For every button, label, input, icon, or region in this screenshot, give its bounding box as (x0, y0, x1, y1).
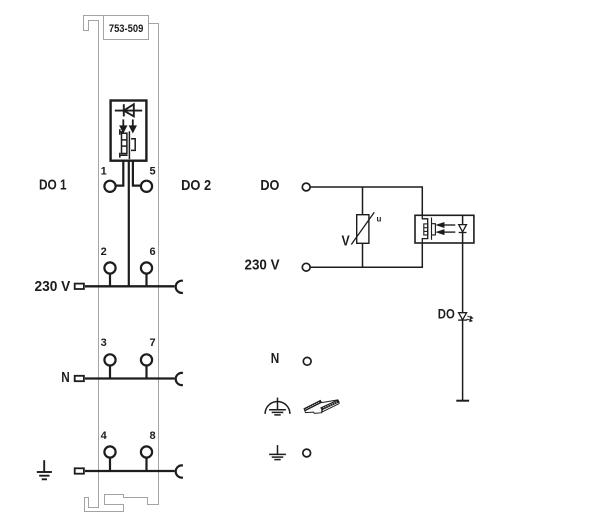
switch gate bar (431, 218, 433, 240)
svg-text:4: 4 (101, 430, 108, 442)
hook N bus (to next module) (176, 373, 183, 385)
varistor branch wire top (362, 187, 364, 215)
connector PE (rect) (75, 468, 84, 473)
svg-text:u: u (377, 215, 382, 224)
svg-text:V: V (342, 233, 350, 249)
LED emission arrows (467, 316, 473, 321)
svg-text:DO 1: DO 1 (39, 177, 67, 194)
wire 230V bus vertical (pin middle) (128, 161, 130, 286)
svg-text:7: 7 (150, 337, 156, 349)
node 230V terminal circle (302, 263, 310, 271)
pin 1 lead (116, 161, 123, 185)
svg-text:N: N (271, 350, 280, 367)
terminal circle 5 (141, 181, 152, 192)
svg-text:3: 3 (101, 337, 107, 349)
clean earth symbol (with arc) (265, 398, 290, 415)
svg-text:8: 8 (150, 430, 156, 442)
svg-text:5: 5 (150, 165, 156, 177)
DIN rail hatching (305, 401, 337, 411)
diode D1 (AC line) (115, 104, 142, 116)
node earth terminal circle (303, 449, 311, 457)
stem terminal 7 (145, 366, 147, 378)
terminal circle 8 (141, 446, 152, 457)
wire 230V bus horizontal (85, 285, 175, 287)
stem terminal 6 (145, 274, 147, 286)
svg-text:1: 1 (101, 165, 107, 177)
DIN rail 3D icon (304, 400, 339, 414)
svg-text:230 V: 230 V (35, 278, 71, 295)
svg-text:DO: DO (438, 307, 455, 322)
varistor diagonal (351, 212, 374, 244)
svg-text:753-509: 753-509 (109, 23, 144, 35)
optocoupler box U2 (415, 215, 474, 243)
hook PE bus (to next module) (176, 465, 183, 477)
terminal circle 2 (104, 262, 115, 273)
terminal circle 1 (104, 181, 115, 192)
symbol box U1 (output stage) (111, 101, 147, 161)
ground symbol (module PE) (37, 460, 52, 479)
stem terminal 3 (109, 366, 111, 378)
varistor branch wire bottom (362, 243, 364, 267)
plain earth symbol (bottom) (269, 445, 286, 460)
terminal circle 7 (141, 354, 152, 365)
svg-text:230 V: 230 V (245, 256, 280, 273)
module body outline 753-509 (84, 16, 159, 512)
LED D2 in box (459, 225, 467, 233)
svg-text:DO: DO (260, 177, 279, 194)
wire N bus horizontal (85, 377, 175, 379)
pin 5 lead (133, 161, 140, 185)
optocoupler light arrows (down) (121, 119, 136, 131)
svg-text:2: 2 (101, 246, 107, 258)
wire 230V to switch box (310, 243, 422, 267)
LED wire through box (462, 215, 464, 400)
svg-text:N: N (61, 369, 70, 386)
terminal circle 3 (104, 354, 115, 365)
svg-text:6: 6 (150, 246, 156, 258)
label box 753-509 (104, 16, 149, 40)
terminal circle 6 (141, 262, 152, 273)
stem terminal 2 (109, 274, 111, 286)
wire PE bus horizontal (85, 470, 175, 472)
connector N (rect) (75, 376, 84, 381)
solid-state switch Q2 (ladder) (424, 224, 428, 235)
stem terminal 8 (145, 458, 147, 471)
terminal circle 4 (104, 446, 115, 457)
DIN rail end caps (319, 400, 339, 410)
switch through-wire jog (422, 215, 427, 243)
svg-text:DO 2: DO 2 (181, 177, 211, 194)
hook 230V bus (to next module) (176, 281, 183, 293)
light arrow upper (to switch) (437, 223, 455, 234)
node DO terminal circle (302, 183, 310, 191)
wire end bar (456, 400, 469, 402)
varistor V1 body (357, 215, 369, 244)
stem terminal 4 (109, 458, 111, 471)
switch bracket electrode (432, 224, 436, 235)
solid-state switch Q1 (vertical) (120, 129, 135, 159)
wire DO to switch box (310, 187, 422, 215)
node N terminal circle (303, 357, 311, 365)
connector 230V (rect) (75, 284, 84, 289)
status LED DO (458, 313, 467, 320)
